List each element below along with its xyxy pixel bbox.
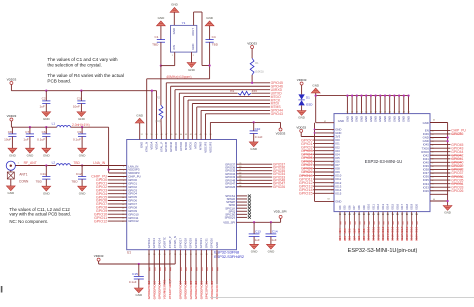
svg-text:RF_ANT: RF_ANT (24, 161, 37, 165)
svg-text:R2: R2 (157, 96, 161, 100)
wires module GND pins 1-2 and 63 (314, 123, 342, 204)
svg-text:GND: GND (171, 3, 179, 7)
svg-text:GPIO26: GPIO26 (273, 185, 285, 189)
capacitor C2 (39, 90, 50, 112)
svg-text:GND: GND (397, 116, 401, 122)
svg-text:VDD3P3: VDD3P3 (203, 141, 207, 152)
label chip variants (214, 251, 244, 259)
svg-text:GPIO20: GPIO20 (194, 238, 198, 249)
svg-text:GND: GND (374, 116, 378, 122)
svg-text:GND: GND (312, 83, 320, 87)
svg-text:GPIO20: GPIO20 (194, 281, 198, 292)
svg-text:GND: GND (215, 284, 219, 292)
svg-text:49: 49 (155, 134, 157, 136)
svg-text:IO19: IO19 (410, 203, 414, 209)
ground flipped at chip GND top pin (135, 113, 144, 139)
svg-text:R1: R1 (255, 61, 259, 65)
ground below C15 (134, 288, 143, 297)
svg-text:GPIO: GPIO (152, 291, 156, 299)
antenna connector ANT1 (6, 161, 29, 186)
svg-text:XT32K_P: XT32K_P (168, 236, 172, 248)
svg-text:L2: L2 (52, 161, 56, 165)
resistor R2 in XTAL_P line (155, 66, 163, 140)
svg-text:39: 39 (384, 111, 386, 113)
svg-text:GPIO: GPIO (178, 291, 182, 299)
svg-text:31: 31 (346, 111, 348, 113)
svg-text:GND: GND (215, 242, 219, 248)
svg-text:IO20: IO20 (415, 234, 419, 241)
svg-text:IO13: IO13 (381, 226, 385, 233)
svg-text:GND: GND (268, 250, 276, 254)
svg-text:IO11: IO11 (372, 234, 376, 241)
power VDD33 at module 3V3 (296, 125, 334, 136)
ground below C13 (250, 244, 259, 253)
svg-text:IO5: IO5 (343, 228, 347, 233)
svg-text:C8: C8 (8, 130, 12, 134)
svg-text:36: 36 (370, 111, 372, 113)
svg-text:XIN: XIN (172, 45, 176, 50)
svg-text:GND: GND (335, 199, 341, 203)
svg-text:41: 41 (239, 169, 241, 171)
svg-text:GPIO46: GPIO46 (169, 141, 173, 152)
svg-text:2: 2 (193, 55, 194, 57)
svg-text:C15: C15 (132, 272, 138, 276)
svg-text:IO19: IO19 (410, 234, 414, 241)
svg-text:SPIC: SPIC (205, 291, 209, 299)
svg-text:GND: GND (423, 121, 429, 125)
svg-text:C12: C12 (76, 172, 82, 176)
svg-text:VDD_SPI: VDD_SPI (274, 210, 287, 214)
svg-text:39: 39 (239, 163, 241, 165)
svg-text:0.1uF: 0.1uF (255, 135, 263, 139)
svg-text:GPIO43: GPIO43 (271, 112, 283, 116)
svg-text:GPIO19: GPIO19 (189, 281, 193, 292)
svg-text:VD3RTC: VD3RTC (163, 279, 167, 292)
svg-text:SPICS1: SPICS1 (204, 238, 208, 248)
svg-text:C9: C9 (77, 130, 81, 134)
power VDD33 bottom (94, 254, 104, 264)
ground flipped at module GND rail (311, 83, 320, 93)
svg-text:CONN: CONN (19, 179, 29, 183)
svg-text:GPIO: GPIO (199, 291, 203, 299)
svg-text:45: 45 (239, 182, 241, 184)
svg-text:(10KΩ): (10KΩ) (255, 70, 263, 74)
svg-text:40MHz(±10ppm): 40MHz(±10ppm) (166, 75, 191, 79)
svg-text:IO8: IO8 (357, 205, 361, 210)
svg-text:499: 499 (252, 89, 258, 93)
svg-text:GND: GND (27, 153, 35, 157)
svg-text:GND: GND (406, 116, 410, 122)
svg-text:C3: C3 (77, 97, 81, 101)
svg-text:C7: C7 (25, 130, 29, 134)
svg-text:C13: C13 (255, 230, 261, 234)
wires module top GND pins (346, 94, 409, 113)
crystal Y1 (171, 21, 197, 57)
svg-text:38: 38 (379, 111, 381, 113)
svg-text:GND: GND (251, 250, 259, 254)
capacitor C15 (129, 263, 144, 288)
svg-text:VDD33: VDD33 (296, 125, 306, 129)
svg-text:GPIO13: GPIO13 (152, 238, 156, 249)
ground below module right (443, 206, 452, 215)
svg-text:GND: GND (364, 116, 368, 122)
svg-text:0.1uF: 0.1uF (73, 138, 81, 142)
svg-text:41: 41 (393, 111, 395, 113)
svg-text:GND: GND (140, 142, 144, 148)
wire crystal pin4 to GND (173, 12, 175, 25)
capacitor C6 (37, 126, 50, 148)
svg-text:U1: U1 (127, 251, 131, 255)
svg-text:GPIO19: GPIO19 (189, 238, 193, 249)
svg-text:GND: GND (378, 116, 382, 122)
power VDD_SPI (274, 210, 287, 219)
module bottom pin names (338, 203, 418, 209)
svg-text:IO17: IO17 (400, 234, 404, 241)
svg-text:GPIO26: GPIO26 (225, 185, 236, 189)
svg-text:GND: GND (43, 153, 51, 157)
svg-text:MTCK: MTCK (189, 142, 193, 150)
wire VDD33 rail to VDDA (11, 90, 156, 140)
diode D1 ESD (298, 94, 313, 110)
wire VDD3P3_CPU row with C10 (210, 122, 280, 139)
svg-text:VDD33: VDD33 (7, 114, 17, 118)
svg-text:GND: GND (345, 116, 349, 122)
svg-text:GPIO26: GPIO26 (451, 189, 463, 193)
svg-text:IO8: IO8 (357, 228, 361, 233)
svg-text:IO7: IO7 (352, 236, 356, 241)
svg-text:51: 51 (146, 134, 148, 136)
svg-text:IO18: IO18 (405, 226, 409, 233)
wire VDD3P3_RTC (99, 250, 176, 264)
svg-text:SPIDQS: SPIDQS (225, 215, 236, 219)
chip U1 right pin names (223, 162, 236, 224)
wire module right GND vertical to ground (430, 123, 449, 206)
svg-text:TBD: TBD (71, 180, 78, 184)
inductor L1 (52, 122, 90, 128)
svg-text:63: 63 (327, 199, 329, 201)
power VDD33 at C10 (276, 128, 286, 135)
svg-text:C1: C1 (155, 35, 159, 39)
svg-text:GND: GND (392, 116, 396, 122)
svg-text:IO5: IO5 (343, 205, 347, 210)
svg-text:GND: GND (158, 16, 166, 20)
svg-text:1: 1 (18, 163, 19, 165)
svg-text:R4: R4 (230, 89, 234, 93)
svg-text:IO6: IO6 (347, 205, 351, 210)
sheet border bottom (210, 296, 474, 298)
ground below C10 (249, 142, 258, 151)
svg-text:40: 40 (239, 166, 241, 168)
capacitor C12 (71, 164, 86, 186)
svg-text:34: 34 (360, 111, 362, 113)
svg-text:44: 44 (407, 111, 409, 113)
svg-text:IO15: IO15 (390, 203, 394, 209)
svg-text:GND: GND (79, 191, 87, 195)
svg-text:IO19: IO19 (410, 226, 414, 233)
svg-text:1uF: 1uF (23, 138, 28, 142)
svg-text:IO11: IO11 (371, 204, 375, 210)
ground below D1 (297, 111, 306, 120)
wire module top GND rail (315, 93, 409, 123)
module left pin rows (324, 121, 342, 196)
svg-text:IO11: IO11 (372, 227, 376, 234)
svg-text:IO17: IO17 (400, 226, 404, 233)
net labels module right with wires (430, 129, 466, 193)
svg-text:GND: GND (188, 68, 196, 72)
svg-text:VD3RTC: VD3RTC (163, 237, 167, 248)
svg-text:IO14: IO14 (386, 203, 390, 209)
svg-text:42: 42 (239, 172, 241, 174)
svg-text:1: 1 (172, 55, 173, 57)
svg-text:VDDA: VDDA (150, 142, 154, 150)
svg-text:IO9: IO9 (362, 205, 366, 210)
svg-text:GND: GND (369, 116, 373, 122)
svg-text:C2: C2 (42, 97, 46, 101)
svg-text:ANT1: ANT1 (19, 172, 27, 176)
svg-text:IO6: IO6 (348, 236, 352, 241)
svg-text:XT32: XT32 (168, 292, 172, 300)
svg-text:XT32K_P: XT32K_P (168, 279, 172, 292)
svg-text:TBD: TBD (73, 161, 80, 165)
svg-text:42: 42 (190, 134, 192, 136)
ground below C7 (26, 148, 35, 157)
net labels below chip rotated (147, 279, 219, 300)
svg-text:VDD33: VDD33 (94, 254, 104, 258)
net labels GPIO37-GPIO26 with wires (237, 162, 286, 189)
node VDD3P3 junction (107, 168, 126, 173)
svg-text:10nF: 10nF (73, 105, 80, 109)
svg-text:U0TXD: U0TXD (179, 142, 183, 151)
svg-text:GPIO: GPIO (210, 291, 214, 299)
wire VDD_SPI rail (237, 218, 281, 222)
svg-text:IO6: IO6 (348, 228, 352, 233)
capacitor C11 (36, 164, 51, 186)
svg-text:GND: GND (444, 211, 452, 215)
wire 3V3 filter rail (11, 127, 108, 173)
svg-text:GND: GND (359, 116, 363, 122)
svg-text:GPIO21: GPIO21 (199, 281, 203, 292)
svg-text:(0Ω): (0Ω) (155, 119, 160, 123)
op-chip U1 ESP32-S3 body (127, 140, 237, 255)
svg-text:XTAL_N: XTAL_N (145, 142, 149, 152)
svg-text:IO17: IO17 (400, 203, 404, 209)
net labels module left GPIO with wires (299, 138, 334, 195)
svg-text:TBD: TBD (36, 180, 43, 184)
module right pin rows (421, 119, 435, 201)
svg-text:52: 52 (141, 134, 143, 136)
svg-text:IO10: IO10 (367, 226, 371, 233)
svg-text:IO15: IO15 (391, 226, 395, 233)
svg-text:GND: GND (383, 116, 387, 122)
svg-text:IO12: IO12 (376, 234, 380, 241)
svg-text:IO16: IO16 (395, 226, 399, 233)
capacitor C9 (73, 126, 86, 148)
note: C11 L2 C12 vary with PCB (9, 207, 71, 224)
wire XIN node (160, 52, 175, 67)
svg-text:33: 33 (356, 111, 358, 113)
svg-text:65: 65 (433, 119, 435, 121)
wires chip bottom GPIO columns (149, 250, 218, 285)
svg-text:GPIO15: GPIO15 (299, 192, 313, 196)
svg-text:IO16: IO16 (395, 234, 399, 241)
svg-text:GND: GND (136, 113, 144, 117)
svg-text:LNA_IN: LNA_IN (93, 161, 105, 165)
svg-text:44: 44 (180, 134, 182, 136)
svg-text:GPIO18: GPIO18 (184, 281, 188, 292)
svg-text:IO16: IO16 (395, 203, 399, 209)
svg-text:GPIO12: GPIO12 (128, 219, 139, 223)
svg-text:GPIO14: GPIO14 (157, 238, 161, 249)
svg-text:IO10: IO10 (367, 203, 371, 209)
svg-text:GPIO26: GPIO26 (210, 238, 214, 249)
ground below C8 (8, 148, 17, 157)
svg-text:GPIO26: GPIO26 (210, 281, 214, 292)
note: R4 varies with PCB (47, 73, 124, 83)
svg-text:L1: L1 (52, 122, 56, 126)
svg-text:GND: GND (135, 293, 143, 297)
svg-text:NC: No component.: NC: No component. (9, 219, 48, 224)
svg-text:1uF: 1uF (39, 105, 44, 109)
svg-text:GPIO: GPIO (189, 291, 193, 299)
svg-text:IO12: IO12 (376, 226, 380, 233)
svg-text:ESP32-S3-MINI-1U: ESP32-S3-MINI-1U (365, 159, 403, 164)
svg-text:0.1uF: 0.1uF (129, 280, 137, 284)
svg-text:IO14: IO14 (386, 234, 390, 241)
svg-text:The values of C1 and C4 vary w: The values of C1 and C4 vary with (47, 57, 118, 62)
svg-text:IO15: IO15 (335, 191, 342, 195)
ground below C2 (42, 112, 51, 121)
sheet edge mark (1, 286, 3, 293)
svg-text:43: 43 (403, 111, 405, 113)
ground below ANT1 (6, 186, 15, 195)
svg-text:MTDI: MTDI (194, 142, 198, 149)
svg-text:XTAL_P: XTAL_P (159, 142, 163, 152)
capacitor C8 (4, 127, 16, 148)
svg-text:37: 37 (375, 111, 377, 113)
svg-text:IO18: IO18 (405, 203, 409, 209)
svg-text:43: 43 (239, 176, 241, 178)
svg-text:IO8: IO8 (357, 236, 361, 241)
node XTAL_N junction (208, 64, 210, 66)
svg-text:GPIO: GPIO (158, 291, 162, 299)
svg-text:GPIO: GPIO (194, 291, 198, 299)
svg-text:TBD: TBD (152, 42, 159, 46)
svg-text:IO26: IO26 (423, 189, 430, 193)
module top pin names GND (338, 116, 411, 123)
svg-text:40: 40 (389, 111, 391, 113)
wire nest JTAG/UART rows to labels (166, 81, 283, 140)
svg-text:Y1: Y1 (182, 21, 186, 25)
resistor R4 in series (230, 89, 257, 95)
svg-text:ESD: ESD (306, 103, 313, 107)
svg-text:C11: C11 (40, 172, 46, 176)
chip U1 top pin names (140, 134, 213, 153)
chip U1 left pin names (122, 164, 141, 223)
svg-text:IO4: IO4 (338, 228, 342, 233)
capacitor C4 (205, 16, 219, 79)
svg-text:VDD3P3: VDD3P3 (208, 141, 212, 152)
ground below C14 (267, 244, 276, 253)
capacitor C1 (152, 16, 165, 65)
power VDD33 top-left (7, 78, 17, 91)
svg-text:GND: GND (250, 147, 258, 151)
ground below C12 (78, 186, 87, 195)
svg-text:VD3R: VD3R (163, 290, 167, 299)
svg-text:35: 35 (365, 111, 367, 113)
inductor L2 (52, 161, 81, 166)
svg-text:IO13: IO13 (381, 203, 385, 209)
svg-text:C4: C4 (212, 35, 216, 39)
ground below C6 (42, 148, 51, 157)
capacitor C13 (249, 221, 261, 244)
svg-text:43: 43 (185, 134, 187, 136)
svg-text:SPICS1: SPICS1 (205, 281, 209, 292)
capacitor C3 (73, 90, 86, 112)
svg-text:VDD33: VDD33 (247, 42, 257, 46)
svg-text:GPIO12: GPIO12 (147, 281, 151, 292)
svg-text:GND: GND (191, 44, 195, 50)
svg-text:VDD33: VDD33 (276, 131, 286, 135)
svg-text:GND: GND (9, 153, 17, 157)
svg-text:IO7: IO7 (352, 228, 356, 233)
svg-text:MTDO: MTDO (184, 141, 188, 150)
svg-text:GPIO12: GPIO12 (94, 219, 107, 223)
svg-text:1uF: 1uF (271, 238, 276, 242)
svg-text:vary with the actual PCB board: vary with the actual PCB board. (9, 212, 71, 217)
capacitor C7 (23, 126, 34, 148)
svg-text:U0RXD: U0RXD (174, 142, 178, 151)
svg-text:IO10: IO10 (367, 234, 371, 241)
chip U1 bottom pin names (147, 236, 219, 256)
capacitor C14 (266, 221, 278, 244)
svg-text:GPIO21: GPIO21 (199, 238, 203, 249)
svg-text:IO12: IO12 (376, 203, 380, 209)
svg-text:TBD: TBD (212, 42, 219, 46)
ground flipped above crystal (170, 3, 179, 13)
svg-text:The value of R4 varies with th: The value of R4 varies with the actual (47, 73, 124, 78)
svg-text:GPIO17: GPIO17 (178, 281, 182, 292)
note: C1/C4 crystal selection (47, 57, 118, 67)
svg-text:GPIO18: GPIO18 (184, 238, 188, 249)
svg-text:GPIO45: GPIO45 (164, 141, 168, 152)
svg-text:IO13: IO13 (381, 234, 385, 241)
ground below C11 (42, 186, 51, 195)
svg-text:C6: C6 (42, 130, 46, 134)
svg-text:IO7: IO7 (352, 205, 356, 210)
svg-text:IO4: IO4 (338, 236, 342, 241)
svg-text:GND: GND (79, 153, 87, 157)
svg-text:C10: C10 (255, 127, 261, 131)
svg-text:ESP32-S3-MINI-1U(pin-out): ESP32-S3-MINI-1U(pin-out) (348, 248, 418, 254)
svg-text:GPIO13: GPIO13 (152, 281, 156, 292)
svg-text:3: 3 (123, 173, 124, 175)
svg-text:GPIO12: GPIO12 (147, 238, 151, 249)
wire RF_ANT (15, 161, 56, 166)
svg-text:0.1uF: 0.1uF (37, 138, 45, 142)
svg-text:IO5: IO5 (343, 236, 347, 241)
svg-text:44: 44 (239, 179, 241, 181)
svg-text:GND: GND (172, 28, 176, 34)
svg-text:GPIO17: GPIO17 (178, 238, 182, 249)
no-connect marks SPI pins (237, 195, 251, 219)
ground below C3 (77, 112, 86, 121)
svg-text:IO20: IO20 (415, 226, 419, 233)
svg-text:62: 62 (324, 121, 326, 123)
svg-text:VDDA: VDDA (154, 142, 158, 150)
svg-text:2: 2 (123, 170, 124, 172)
svg-text:1uF: 1uF (255, 238, 260, 242)
svg-text:IO4: IO4 (338, 205, 342, 210)
